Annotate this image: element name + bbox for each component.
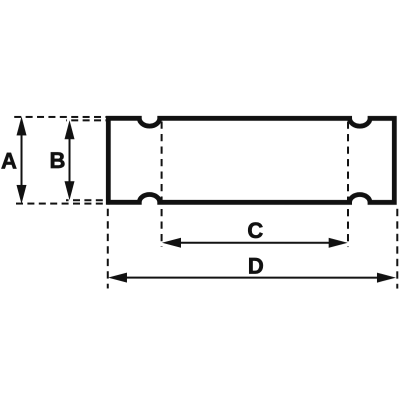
extension line B bottom <box>66 199 110 201</box>
svg-text:A: A <box>1 148 17 173</box>
dimension line C <box>162 238 348 248</box>
extension line B top <box>66 119 110 121</box>
extension line A bottom <box>16 203 110 205</box>
tag body outline with four notches <box>108 118 394 202</box>
extension line A top <box>14 116 110 118</box>
dimension line B <box>64 120 74 200</box>
extension line C left vertical <box>161 121 163 246</box>
extension line D right vertical <box>396 209 398 289</box>
dimension line D <box>108 273 396 283</box>
svg-text:D: D <box>248 253 264 278</box>
extension line C right vertical <box>347 122 349 248</box>
svg-text:B: B <box>50 148 66 173</box>
extension line D left vertical <box>107 209 109 289</box>
svg-text:C: C <box>247 218 263 243</box>
dimension line A <box>16 116 26 204</box>
